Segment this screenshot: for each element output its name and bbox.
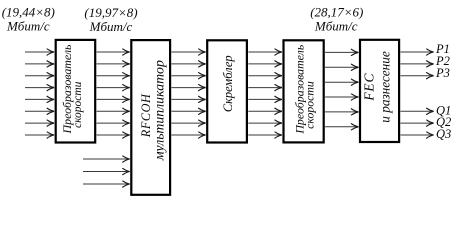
wire arrow 2 U2 to U3 <box>172 63 206 65</box>
wire arrow 1 U2 to U3 <box>172 51 206 53</box>
wire arrow 6 U1 to U2 <box>97 110 130 112</box>
input wire arrow 6 into U1 <box>25 110 54 112</box>
block U3 scrambler box <box>207 40 247 142</box>
wire arrow 7 U2 to U3 <box>172 122 206 124</box>
wire arrow 8 U2 to U3 <box>172 134 206 136</box>
input wire arrow 7 into U1 <box>25 122 54 124</box>
wire arrow 5 U2 to U3 <box>172 98 206 100</box>
wire arrow 3 U3 to U4 <box>248 75 281 77</box>
output wire arrow P2 from U5 <box>401 63 434 65</box>
output wire arrow P1 from U5 <box>401 51 434 53</box>
wire arrow 1 U1 to U2 <box>97 51 130 53</box>
wire arrow 3 U1 to U2 <box>97 75 130 77</box>
RFCOH overhead input wire arrow 1 into U2 <box>83 158 130 160</box>
wire arrow 6 U2 to U3 <box>172 110 206 112</box>
svg-text:(28,17×6): (28,17×6) <box>310 5 363 20</box>
input wire arrow 2 into U1 <box>25 63 54 65</box>
svg-text:(19,97×8): (19,97×8) <box>84 5 137 20</box>
input wire arrow 1 into U1 <box>25 51 54 53</box>
svg-text:Мбит/с: Мбит/с <box>6 19 50 34</box>
svg-text:Скремблер: Скремблер <box>221 55 235 112</box>
wire arrow 2 U4 to U5 <box>325 66 358 68</box>
wire arrow 6 U3 to U4 <box>248 110 281 112</box>
wire arrow 7 U1 to U2 <box>97 122 130 124</box>
RFCOH overhead input wire arrow 3 into U2 <box>83 183 130 185</box>
input wire arrow 8 into U1 <box>25 134 54 136</box>
input wire arrow 4 into U1 <box>25 87 54 89</box>
wire arrow 5 U3 to U4 <box>248 98 281 100</box>
wire arrow 8 U1 to U2 <box>97 134 130 136</box>
wire arrow 3 U4 to U5 <box>325 81 358 83</box>
wire arrow 4 U4 to U5 <box>325 96 358 98</box>
wire arrow 6 U4 to U5 <box>325 126 358 128</box>
wire arrow 3 U2 to U3 <box>172 75 206 77</box>
output wire arrow Q1 from U5 <box>401 110 434 112</box>
wire arrow 7 U3 to U4 <box>248 122 281 124</box>
wire arrow 5 U4 to U5 <box>325 111 358 113</box>
svg-text:FEC: FEC <box>362 73 377 102</box>
output wire arrow Q2 from U5 <box>401 122 434 124</box>
wire arrow 4 U2 to U3 <box>172 87 206 89</box>
wire arrow 1 U4 to U5 <box>325 51 358 53</box>
wire arrow 2 U3 to U4 <box>248 63 281 65</box>
wire arrow 2 U1 to U2 <box>97 63 130 65</box>
block U4 speed converter box <box>284 40 324 142</box>
svg-text:скорости: скорости <box>302 81 316 129</box>
svg-text:и разнесение: и разнесение <box>378 51 393 123</box>
svg-text:Мбит/с: Мбит/с <box>314 18 358 33</box>
output wire arrow Q3 from U5 <box>401 134 434 136</box>
RFCOH overhead input wire arrow 2 into U2 <box>83 171 130 173</box>
wire arrow 1 U3 to U4 <box>248 51 281 53</box>
block U2 RFCOH multiplier box <box>131 40 170 195</box>
svg-text:скорости: скорости <box>72 81 84 128</box>
wire arrow 4 U3 to U4 <box>248 87 281 89</box>
input wire arrow 5 into U1 <box>25 98 54 100</box>
block U1 speed converter box <box>56 40 95 143</box>
svg-text:P3: P3 <box>435 66 450 80</box>
wire arrow 8 U3 to U4 <box>248 134 281 136</box>
svg-text:Q3: Q3 <box>436 127 451 141</box>
wire arrow 4 U1 to U2 <box>97 87 130 89</box>
svg-text:Мбит/с: Мбит/с <box>89 19 133 34</box>
wire arrow 5 U1 to U2 <box>97 98 130 100</box>
output wire arrow P3 from U5 <box>401 75 434 77</box>
svg-text:мультипликатор: мультипликатор <box>152 60 167 161</box>
svg-text:(19,44×8): (19,44×8) <box>2 5 55 20</box>
input wire arrow 3 into U1 <box>25 75 54 77</box>
block U5 FEC and diversity box <box>360 40 399 142</box>
